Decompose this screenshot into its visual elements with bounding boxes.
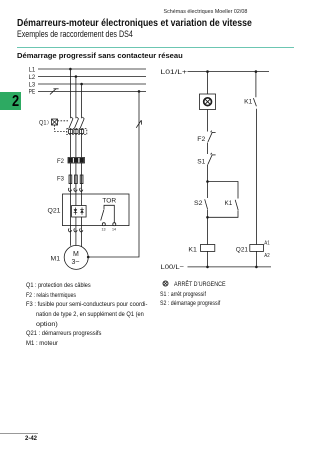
svg-text:K1: K1 [225,200,233,207]
svg-text:L1: L1 [29,66,36,73]
svg-text:Q21: Q21 [236,247,249,254]
svg-text:Q21: Q21 [48,208,61,215]
junction bottom rail branch2 [255,266,258,269]
Q21 thyristor block [72,206,87,218]
plug terminal pole3 [80,188,83,191]
svg-text:A2: A2 [264,253,270,259]
wire pole1 inside Q21 [69,194,71,246]
legend left column [26,281,158,348]
junction PE drop [138,90,141,93]
net L2 rail [38,76,146,78]
wire ES to F2 contact [207,110,209,132]
junction parallel bottom [206,216,209,219]
Q1 thermal trip elements dashed box [67,129,87,135]
plug terminal pole3 below [80,229,83,232]
PE conductor mark (slash with bar) [50,89,59,95]
svg-text:L3: L3 [29,81,36,88]
svg-text:3~: 3~ [72,259,80,266]
svg-text:M1: M1 [51,256,61,263]
emergency stop box [200,94,216,110]
wire S1 to branch node [207,165,209,199]
junction motor PE [87,256,90,259]
wire pole2 F2 to F3 [75,163,77,175]
junction rail/branch2 [255,70,258,73]
wire parallel bottom [208,211,239,218]
svg-text:TOR: TOR [102,198,116,205]
thermal overload relay F2 box [68,158,85,164]
net L3 rail [38,83,146,85]
chapter tab 2 [0,92,21,110]
wire F2 to S1 [207,143,209,155]
Q1 trip element pole2 [74,130,78,134]
thyristor symbol 2 [80,208,84,215]
junction parallel top [206,180,209,183]
wire pole3 inside Q21 [81,194,83,247]
F2 heater pole1 [69,158,73,162]
wire pole2 Q1 to F2 [75,128,77,157]
wire pole1 L1 to Q1 [69,69,71,118]
NC contact F2 [208,131,216,142]
wire branch2 top [255,72,257,98]
wire pole3 F3 to Q21 [81,184,83,194]
svg-text:A1: A1 [264,240,270,246]
F2 heater pole2 [74,158,78,162]
fuse F3 pole1 [69,175,72,184]
PE drop conductor mark [136,120,141,128]
section heading [17,51,176,60]
page number 2-42 [25,436,37,442]
control rail L00/L- [188,266,272,268]
net PE rail [38,90,146,92]
plug terminal pole1 [68,188,71,191]
wire pole3 F2 to F3 [81,163,83,175]
legend right column [160,280,234,309]
plug terminal pole1 below [68,229,71,232]
control rail L01/L+ [188,71,270,73]
motor M1 circle [64,245,88,269]
wire pole3 L3 to Q1 [81,84,83,118]
contactor coil K1 [201,245,215,252]
F2 heater pole3 [80,158,84,162]
svg-text:Q1: Q1 [39,120,47,127]
Q1 linkage dashed [55,121,69,132]
svg-text:S1: S1 [197,158,205,165]
plug terminal pole2 [74,188,77,191]
header running title [160,9,247,15]
wire S2 down to coil [207,210,209,245]
junction rail/branch1 [206,70,209,73]
Q1 trip element pole3 [80,130,84,134]
NO contact K1 main branch [253,98,256,106]
junction L3/pole3 [80,83,83,86]
plug terminal pole2 below [74,229,77,232]
wire K1 coil to rail [207,251,209,267]
soft starter control coil Q21 [250,245,264,252]
svg-text:M: M [73,251,79,258]
breaker Q1 pole 2 contact [74,117,78,128]
TOR terminal 14 [113,223,116,226]
teal separator rule [17,47,294,48]
junction L1/pole1 [69,68,72,71]
NO contact K1 aux [235,200,238,210]
circuit breaker Q1 trip box [52,119,58,125]
emergency stop legend icon [162,280,169,287]
soft starter Q21 box [63,194,130,226]
thyristor symbol 1 [74,208,78,215]
wire pole1 F3 to Q21 [69,184,71,194]
svg-text:L2: L2 [29,74,36,81]
wire K1 contact to Q21 coil [255,109,257,245]
svg-text:PE: PE [29,89,36,96]
NC contact S1 [208,153,216,164]
footer rule [0,433,38,434]
svg-text:K1: K1 [188,246,197,253]
svg-text:F2: F2 [197,136,205,143]
svg-text:L01/L+: L01/L+ [161,69,188,76]
wire pole3 Q1 to F2 [81,128,83,157]
breaker Q1 pole 1 contact [69,117,73,128]
NO contact S2 [205,199,208,209]
wire pole1 Q1 to F2 [69,128,71,157]
svg-text:K1: K1 [244,99,253,106]
svg-text:F2: F2 [57,158,64,165]
junction bottom rail branch1 [206,266,209,269]
svg-text:F3: F3 [57,175,64,182]
TOR contact blade [101,210,104,221]
wire pole2 inside Q21 [75,194,77,246]
svg-text:S2: S2 [194,200,203,207]
wire parallel top [208,182,239,199]
wire pole2 F3 to Q21 [75,184,77,194]
subtitle [17,29,164,39]
svg-text:13: 13 [102,228,106,232]
breaker Q1 pole 3 contact [80,117,84,128]
TOR relay contact bracket [104,205,114,222]
wire Q21 coil to rail [255,251,257,267]
svg-text:〉: 〉 [47,121,52,127]
junction L2/pole2 [75,75,78,78]
TOR terminal 13 [102,223,105,226]
wire pole2 L2 to Q1 [75,77,77,119]
net L1 rail [38,68,146,70]
wire branch1 top [207,72,209,94]
page title [17,18,285,29]
wire pole1 F2 to F3 [69,163,71,175]
svg-text:14: 14 [112,228,116,232]
fuse F3 pole3 [80,175,83,184]
Q1 trip element pole1 [69,130,73,134]
fuse F3 pole2 [75,175,78,184]
emergency stop symbol [204,98,212,106]
svg-text:L00/L−: L00/L− [161,264,185,271]
wire PE drop to motor [88,91,139,257]
